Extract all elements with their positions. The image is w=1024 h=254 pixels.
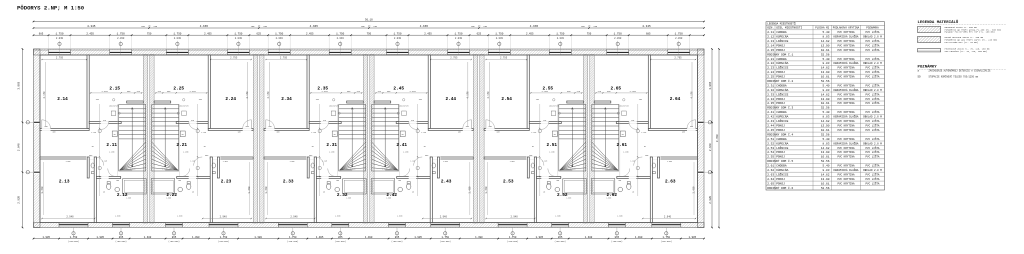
svg-text:PVC LIŠTA: PVC LIŠTA — [865, 164, 879, 168]
svg-text:52.56: 52.56 — [821, 107, 830, 110]
svg-text:2.62: 2.62 — [767, 169, 774, 172]
svg-text:1.100: 1.100 — [403, 152, 408, 154]
svg-text:865: 865 — [395, 236, 400, 239]
svg-text:2.15: 2.15 — [109, 87, 120, 92]
svg-text:800: 800 — [690, 126, 693, 128]
svg-text:KERAMICKÁ DLAŽBA: KERAMICKÁ DLAŽBA — [834, 141, 859, 145]
svg-text:800: 800 — [529, 155, 532, 157]
svg-text:2.940: 2.940 — [290, 216, 298, 219]
svg-text:2.22: 2.22 — [166, 193, 177, 198]
svg-text:1.100: 1.100 — [329, 152, 334, 154]
svg-text:RODINNÝ DOM Č.5: RODINNÝ DOM Č.5 — [767, 159, 793, 163]
svg-text:2.53: 2.53 — [767, 147, 774, 150]
svg-text:865: 865 — [119, 236, 124, 239]
svg-text:2.25: 2.25 — [767, 76, 774, 79]
svg-text:600: 600 — [556, 180, 559, 182]
svg-text:90: 90 — [323, 192, 325, 194]
svg-text:2.42: 2.42 — [386, 193, 397, 198]
svg-text:1.520: 1.520 — [602, 169, 607, 171]
svg-text:PVC LIŠTA: PVC LIŠTA — [865, 137, 879, 141]
svg-text:10x178/270: 10x178/270 — [109, 106, 119, 108]
svg-text:2.11: 2.11 — [767, 31, 774, 34]
svg-text:1.750: 1.750 — [556, 32, 564, 35]
svg-text:1.380: 1.380 — [254, 236, 262, 239]
svg-text:PVC LIŠTA: PVC LIŠTA — [865, 181, 879, 185]
svg-text:WM: WM — [334, 134, 336, 136]
svg-text:2.52: 2.52 — [767, 142, 774, 145]
svg-text:1.482: 1.482 — [630, 90, 637, 93]
svg-text:3.450: 3.450 — [468, 186, 471, 194]
svg-text:2.54: 2.54 — [501, 97, 512, 102]
svg-text:2.34: 2.34 — [767, 98, 774, 101]
svg-text:905: 905 — [347, 91, 350, 93]
svg-text:420: 420 — [158, 91, 161, 93]
svg-text:(750-960): (750-960) — [440, 240, 451, 243]
svg-text:90: 90 — [532, 146, 534, 148]
svg-text:2.940: 2.940 — [440, 216, 448, 219]
svg-text:(750-960): (750-960) — [335, 240, 346, 243]
svg-text:1.245: 1.245 — [421, 132, 426, 134]
svg-text:4.170: 4.170 — [246, 91, 249, 99]
svg-text:2.63: 2.63 — [767, 173, 774, 176]
svg-text:(750-960): (750-960) — [554, 240, 565, 243]
svg-text:2.64: 2.64 — [767, 178, 774, 181]
svg-text:14.62: 14.62 — [821, 40, 830, 43]
svg-text:1.685: 1.685 — [566, 198, 571, 200]
svg-text:8.03: 8.03 — [823, 36, 830, 39]
svg-text:2.23: 2.23 — [767, 67, 774, 70]
svg-text:OBKLAD 2.0 M: OBKLAD 2.0 M — [863, 142, 882, 145]
svg-text:OBKLAD 2.0 M: OBKLAD 2.0 M — [863, 169, 882, 172]
svg-text:700: 700 — [316, 99, 319, 101]
svg-text:2.61: 2.61 — [767, 165, 774, 168]
svg-text:SDK PRIEČKA (TL. 75, 125, 150: SDK PRIEČKA (TL. 75, 125, 150 mm) — [945, 50, 987, 53]
svg-text:1.750: 1.750 — [70, 236, 78, 239]
svg-text:4.170: 4.170 — [691, 91, 694, 99]
svg-text:4.170: 4.170 — [466, 91, 469, 99]
svg-text:1.750: 1.750 — [275, 32, 283, 35]
svg-text:PVC LIŠTA: PVC LIŠTA — [865, 124, 879, 128]
svg-text:700: 700 — [536, 99, 539, 101]
svg-text:CHODBA: CHODBA — [776, 138, 787, 141]
svg-text:2.14: 2.14 — [57, 97, 68, 102]
svg-text:90: 90 — [368, 25, 370, 27]
svg-text:2.940: 2.940 — [66, 216, 74, 219]
svg-text:420: 420 — [598, 91, 601, 93]
svg-text:PLOCHA M2: PLOCHA M2 — [815, 27, 829, 30]
svg-text:1.145: 1.145 — [102, 161, 107, 163]
svg-text:RODINNÝ DOM Č.3: RODINNÝ DOM Č.3 — [767, 106, 793, 110]
svg-text:PVC KRYTINA: PVC KRYTINA — [837, 147, 855, 150]
svg-text:(750-960): (750-960) — [391, 240, 402, 243]
svg-text:1.750: 1.750 — [495, 32, 503, 35]
svg-text:10x178/270: 10x178/270 — [549, 106, 559, 108]
svg-text:2.455: 2.455 — [86, 32, 94, 35]
svg-text:1.750: 1.750 — [675, 32, 683, 35]
svg-text:90: 90 — [192, 192, 194, 194]
svg-text:2.455: 2.455 — [424, 32, 432, 35]
svg-text:1.245: 1.245 — [91, 132, 96, 134]
svg-text:PVC LIŠTA: PVC LIŠTA — [865, 128, 879, 132]
svg-text:CHODBA: CHODBA — [776, 111, 787, 114]
svg-text:1.880: 1.880 — [397, 216, 402, 218]
svg-text:2.795: 2.795 — [500, 57, 508, 60]
svg-text:36.10: 36.10 — [365, 19, 373, 22]
svg-text:1.750: 1.750 — [393, 32, 401, 35]
svg-text:905: 905 — [127, 91, 130, 93]
svg-text:1.750: 1.750 — [441, 236, 449, 239]
svg-text:2.030: 2.030 — [496, 37, 504, 40]
svg-text:90: 90 — [92, 146, 94, 148]
svg-text:CHODBA: CHODBA — [776, 85, 787, 88]
svg-text:1.145: 1.145 — [542, 161, 547, 163]
svg-text:1.750: 1.750 — [336, 32, 344, 35]
svg-text:90: 90 — [644, 146, 646, 148]
svg-text:420: 420 — [577, 91, 580, 93]
svg-text:900: 900 — [497, 132, 500, 134]
svg-text:800: 800 — [268, 126, 271, 128]
svg-text:1.905: 1.905 — [316, 236, 324, 239]
svg-text:925: 925 — [103, 120, 106, 122]
svg-text:90: 90 — [312, 146, 314, 148]
svg-text:420: 420 — [357, 91, 360, 93]
svg-text:4.665: 4.665 — [530, 25, 539, 28]
svg-text:1.905: 1.905 — [42, 236, 50, 239]
svg-text:PVC KRYTINA: PVC KRYTINA — [837, 182, 855, 185]
svg-text:625: 625 — [477, 32, 482, 35]
svg-text:PVC KRYTINA: PVC KRYTINA — [837, 120, 855, 123]
svg-text:2.31: 2.31 — [767, 85, 774, 88]
svg-text:1.663: 1.663 — [66, 161, 71, 163]
svg-text:1.663: 1.663 — [290, 161, 295, 163]
svg-text:10.61: 10.61 — [821, 129, 830, 132]
svg-text:3.450: 3.450 — [41, 186, 44, 194]
svg-text:LOŽNICE: LOŽNICE — [776, 39, 788, 43]
svg-text:10.61: 10.61 — [821, 182, 830, 185]
svg-text:1.905: 1.905 — [96, 236, 104, 239]
svg-text:1.750: 1.750 — [663, 236, 671, 239]
svg-text:(750-960): (750-960) — [507, 240, 518, 243]
svg-text:905: 905 — [167, 91, 170, 93]
svg-text:14.62: 14.62 — [821, 147, 830, 150]
svg-text:2.51: 2.51 — [767, 138, 774, 141]
svg-text:10.61: 10.61 — [821, 156, 830, 159]
svg-text:14.62: 14.62 — [821, 67, 830, 70]
svg-text:90: 90 — [543, 192, 545, 194]
svg-text:(750-960): (750-960) — [218, 240, 229, 243]
svg-text:1.380: 1.380 — [585, 236, 593, 239]
svg-text:PVC LIŠTA: PVC LIŠTA — [865, 75, 879, 79]
svg-text:(750-960): (750-960) — [168, 240, 179, 243]
svg-text:1.750: 1.750 — [117, 32, 125, 35]
svg-text:RODINNÝ DOM Č.2: RODINNÝ DOM Č.2 — [767, 79, 793, 83]
svg-text:1.145: 1.145 — [190, 161, 195, 163]
svg-text:2.63: 2.63 — [665, 180, 676, 185]
svg-text:2.22: 2.22 — [767, 62, 774, 65]
svg-text:PVC LIŠTA: PVC LIŠTA — [865, 97, 879, 101]
svg-text:3.450: 3.450 — [265, 186, 268, 194]
svg-text:POKOJ: POKOJ — [776, 71, 785, 74]
svg-text:2.62: 2.62 — [607, 193, 618, 198]
svg-text:800: 800 — [89, 155, 92, 157]
svg-text:2.030: 2.030 — [235, 37, 243, 40]
svg-text:(750-960): (750-960) — [611, 240, 622, 243]
svg-text:10.61: 10.61 — [821, 102, 830, 105]
svg-text:PVC LIŠTA: PVC LIŠTA — [865, 48, 879, 52]
svg-text:(750-960): (750-960) — [68, 240, 79, 243]
svg-text:2.41: 2.41 — [767, 111, 774, 114]
svg-text:2.14: 2.14 — [767, 44, 774, 47]
svg-text:4.665: 4.665 — [420, 25, 429, 28]
svg-text:KÚPEĽŇA: KÚPEĽŇA — [776, 115, 788, 119]
svg-text:1.750: 1.750 — [289, 236, 297, 239]
svg-text:4.665: 4.665 — [310, 25, 319, 28]
svg-text:865: 865 — [615, 236, 620, 239]
svg-text:4.170: 4.170 — [267, 91, 270, 99]
svg-text:2.640: 2.640 — [709, 143, 712, 151]
svg-text:ÚČEL MIESTNOSTI: ÚČEL MIESTNOSTI — [776, 26, 802, 30]
svg-text:OBKLAD 2.0 M: OBKLAD 2.0 M — [863, 116, 882, 119]
svg-text:1.685: 1.685 — [126, 198, 131, 200]
svg-text:8.03: 8.03 — [823, 116, 830, 119]
svg-text:2.65: 2.65 — [611, 87, 622, 92]
svg-text:2.52: 2.52 — [557, 193, 568, 198]
svg-text:2.920: 2.920 — [709, 195, 712, 203]
svg-text:1.520: 1.520 — [162, 169, 167, 171]
svg-text:2.455: 2.455 — [306, 32, 314, 35]
svg-text:PVC KRYTINA: PVC KRYTINA — [837, 173, 855, 176]
svg-text:KÚPEĽŇA: KÚPEĽŇA — [776, 35, 788, 39]
svg-text:750: 750 — [587, 32, 592, 35]
svg-text:2.795: 2.795 — [56, 57, 64, 60]
svg-text:1.100: 1.100 — [549, 152, 554, 154]
svg-text:90: 90 — [412, 192, 414, 194]
svg-text:2.030: 2.030 — [56, 37, 64, 40]
svg-text:PVC KRYTINA: PVC KRYTINA — [837, 67, 855, 70]
svg-text:420: 420 — [137, 91, 140, 93]
svg-text:2.33: 2.33 — [767, 93, 774, 96]
svg-text:1.880: 1.880 — [177, 216, 182, 218]
svg-text:4.170: 4.170 — [487, 91, 490, 99]
svg-text:4.170: 4.170 — [43, 91, 46, 99]
svg-text:1.905: 1.905 — [536, 236, 544, 239]
svg-text:KERAMICKÁ DLAŽBA: KERAMICKÁ DLAŽBA — [834, 168, 859, 172]
svg-text:13.90: 13.90 — [821, 125, 830, 128]
svg-text:5.40: 5.40 — [823, 85, 830, 88]
svg-text:POKOJ: POKOJ — [776, 151, 785, 154]
svg-text:13.90: 13.90 — [821, 71, 830, 74]
svg-text:1.520: 1.520 — [570, 169, 575, 171]
svg-text:PVC LIŠTA: PVC LIŠTA — [865, 66, 879, 70]
svg-text:PVC LIŠTA: PVC LIŠTA — [865, 43, 879, 47]
svg-text:(750-960): (750-960) — [661, 240, 672, 243]
svg-text:POKOJ: POKOJ — [776, 102, 785, 105]
svg-text:1.685: 1.685 — [346, 198, 351, 200]
svg-text:700: 700 — [199, 99, 202, 101]
svg-text:2.65: 2.65 — [767, 182, 774, 185]
svg-text:POKOJ: POKOJ — [776, 182, 785, 185]
svg-text:1.750: 1.750 — [509, 236, 517, 239]
svg-text:2.45: 2.45 — [767, 129, 774, 132]
svg-text:KÚPEĽŇA: KÚPEĽŇA — [776, 88, 788, 92]
svg-text:1.880: 1.880 — [335, 216, 340, 218]
svg-text:52.56: 52.56 — [821, 133, 830, 136]
svg-text:POLYSTYRÉN EPS (TL. 10 mm): POLYSTYRÉN EPS (TL. 10 mm) — [945, 41, 978, 44]
svg-text:600: 600 — [398, 180, 401, 182]
svg-text:1.245: 1.245 — [641, 132, 646, 134]
svg-text:KERAMICKÁ DLAŽBA: KERAMICKÁ DLAŽBA — [834, 88, 859, 92]
svg-text:2.32: 2.32 — [337, 193, 348, 198]
svg-text:PÔDORYS 2.NP; M 1:50: PÔDORYS 2.NP; M 1:50 — [17, 5, 85, 12]
svg-text:2.13: 2.13 — [59, 180, 70, 185]
svg-text:2.32: 2.32 — [767, 89, 774, 92]
svg-text:1.750: 1.750 — [614, 32, 622, 35]
svg-text:925: 925 — [323, 120, 326, 122]
svg-text:2.24: 2.24 — [767, 71, 774, 74]
svg-text:750: 750 — [367, 32, 372, 35]
svg-text:700: 700 — [96, 99, 99, 101]
svg-text:1.380: 1.380 — [192, 236, 200, 239]
svg-text:PVC LIŠTA: PVC LIŠTA — [865, 84, 879, 88]
svg-text:2.34: 2.34 — [281, 97, 292, 102]
svg-text:685: 685 — [646, 32, 651, 35]
svg-text:14.62: 14.62 — [821, 93, 830, 96]
svg-text:PVC LIŠTA: PVC LIŠTA — [865, 92, 879, 96]
svg-text:1.482: 1.482 — [321, 90, 328, 93]
svg-text:800: 800 — [44, 126, 47, 128]
svg-text:CHODBA: CHODBA — [776, 31, 787, 34]
svg-text:PVC KRYTINA: PVC KRYTINA — [837, 76, 855, 79]
svg-text:90: 90 — [204, 146, 206, 148]
svg-text:2.12: 2.12 — [767, 36, 774, 39]
svg-text:8.03: 8.03 — [823, 142, 830, 145]
svg-text:PVC LIŠTA: PVC LIŠTA — [865, 30, 879, 34]
svg-text:2.030: 2.030 — [117, 37, 125, 40]
svg-text:8.03: 8.03 — [823, 169, 830, 172]
svg-text:2.53: 2.53 — [503, 180, 514, 185]
svg-text:925: 925 — [191, 120, 194, 122]
svg-text:KERAMICKÁ DLAŽBA: KERAMICKÁ DLAŽBA — [834, 35, 859, 39]
svg-text:1.880: 1.880 — [115, 216, 120, 218]
svg-text:1.750: 1.750 — [55, 32, 63, 35]
svg-text:WM: WM — [554, 134, 556, 136]
svg-text:2.795: 2.795 — [674, 57, 682, 60]
svg-text:2.51: 2.51 — [547, 143, 558, 148]
svg-text:900: 900 — [277, 132, 280, 134]
svg-text:2.11: 2.11 — [106, 143, 117, 148]
svg-text:1.880: 1.880 — [617, 216, 622, 218]
svg-text:2.44: 2.44 — [767, 125, 774, 128]
svg-text:CHODBA: CHODBA — [776, 58, 787, 61]
svg-text:RODINNÝ DOM Č.1: RODINNÝ DOM Č.1 — [767, 52, 793, 56]
svg-text:LOŽNICE: LOŽNICE — [776, 146, 788, 150]
svg-text:800: 800 — [246, 126, 249, 128]
svg-text:2.13: 2.13 — [767, 40, 774, 43]
svg-text:750: 750 — [147, 32, 152, 35]
svg-text:2.030: 2.030 — [337, 37, 345, 40]
svg-text:10x178/270: 10x178/270 — [619, 106, 629, 108]
svg-text:POKOJ: POKOJ — [776, 76, 785, 79]
svg-text:600: 600 — [618, 180, 621, 182]
svg-text:90: 90 — [588, 25, 590, 27]
svg-text:OBKLAD 2.0 M: OBKLAD 2.0 M — [863, 62, 882, 65]
svg-text:90: 90 — [424, 146, 426, 148]
svg-text:2.41: 2.41 — [396, 143, 407, 148]
svg-text:PVC LIŠTA: PVC LIŠTA — [865, 172, 879, 176]
svg-text:10.61: 10.61 — [821, 49, 830, 52]
svg-text:PVC LIŠTA: PVC LIŠTA — [865, 110, 879, 114]
svg-text:700: 700 — [419, 99, 422, 101]
svg-text:8.03: 8.03 — [823, 89, 830, 92]
svg-text:OBKLAD 2.0 M: OBKLAD 2.0 M — [863, 36, 882, 39]
svg-text:3.865: 3.865 — [17, 81, 20, 89]
svg-text:925: 925 — [631, 120, 634, 122]
svg-text:STÚPACIE KOMÍNOVÉ TELESO 705/1: STÚPACIE KOMÍNOVÉ TELESO 705/1250 mm — [929, 76, 979, 79]
svg-text:2.31: 2.31 — [326, 143, 337, 148]
svg-text:2.42: 2.42 — [767, 116, 774, 119]
svg-text:1.685: 1.685 — [166, 198, 171, 200]
svg-text:10x178/270: 10x178/270 — [329, 106, 339, 108]
svg-text:2.45: 2.45 — [393, 87, 404, 92]
svg-text:WM: WM — [114, 134, 116, 136]
svg-text:1.145: 1.145 — [322, 161, 327, 163]
svg-text:PVC KRYTINA: PVC KRYTINA — [837, 129, 855, 132]
svg-text:13.90: 13.90 — [821, 178, 830, 181]
svg-text:2.030: 2.030 — [455, 37, 463, 40]
svg-text:905: 905 — [607, 91, 610, 93]
svg-text:2.030: 2.030 — [174, 37, 182, 40]
svg-text:1.750: 1.750 — [173, 32, 181, 35]
svg-text:PVC KRYTINA: PVC KRYTINA — [837, 156, 855, 159]
svg-text:800: 800 — [309, 155, 312, 157]
svg-text:PODLAHOVÁ KRYTINA: PODLAHOVÁ KRYTINA — [833, 26, 860, 30]
svg-text:13.90: 13.90 — [821, 98, 830, 101]
svg-text:90: 90 — [478, 25, 480, 27]
svg-text:925: 925 — [411, 120, 414, 122]
svg-text:3.450: 3.450 — [485, 186, 488, 194]
svg-text:2.21: 2.21 — [767, 58, 774, 61]
svg-text:2.25: 2.25 — [173, 87, 184, 92]
svg-text:2.12: 2.12 — [117, 193, 128, 198]
svg-text:2.54: 2.54 — [767, 151, 774, 154]
svg-text:POZNÁMKA: POZNÁMKA — [866, 26, 879, 30]
svg-text:1.145: 1.145 — [630, 161, 635, 163]
svg-text:POKOJ: POKOJ — [776, 44, 785, 47]
svg-text:PVC KRYTINA: PVC KRYTINA — [837, 49, 855, 52]
svg-text:14.62: 14.62 — [821, 120, 830, 123]
svg-text:905: 905 — [387, 91, 390, 93]
svg-text:PVC LIŠTA: PVC LIŠTA — [865, 57, 879, 61]
svg-text:LOŽNICE: LOŽNICE — [776, 172, 788, 176]
svg-text:LOŽNICE: LOŽNICE — [776, 66, 788, 70]
svg-text:1.100: 1.100 — [109, 152, 114, 154]
svg-text:POKOJ: POKOJ — [776, 156, 785, 159]
svg-text:PVC KRYTINA: PVC KRYTINA — [837, 93, 855, 96]
svg-text:800: 800 — [489, 126, 492, 128]
svg-text:52.56: 52.56 — [821, 53, 830, 56]
svg-text:KÚPEĽŇA: KÚPEĽŇA — [776, 168, 788, 172]
svg-text:PVC LIŠTA: PVC LIŠTA — [865, 119, 879, 123]
svg-text:5.40: 5.40 — [823, 165, 830, 168]
svg-text:2.55: 2.55 — [767, 156, 774, 159]
svg-text:1.380: 1.380 — [475, 236, 483, 239]
svg-text:PVC LIŠTA: PVC LIŠTA — [865, 101, 879, 105]
svg-text:2.15: 2.15 — [767, 49, 774, 52]
svg-text:POKOJ: POKOJ — [776, 129, 785, 132]
svg-text:PVC KRYTINA: PVC KRYTINA — [837, 71, 855, 74]
svg-text:1.520: 1.520 — [350, 169, 355, 171]
svg-text:865: 865 — [558, 236, 563, 239]
